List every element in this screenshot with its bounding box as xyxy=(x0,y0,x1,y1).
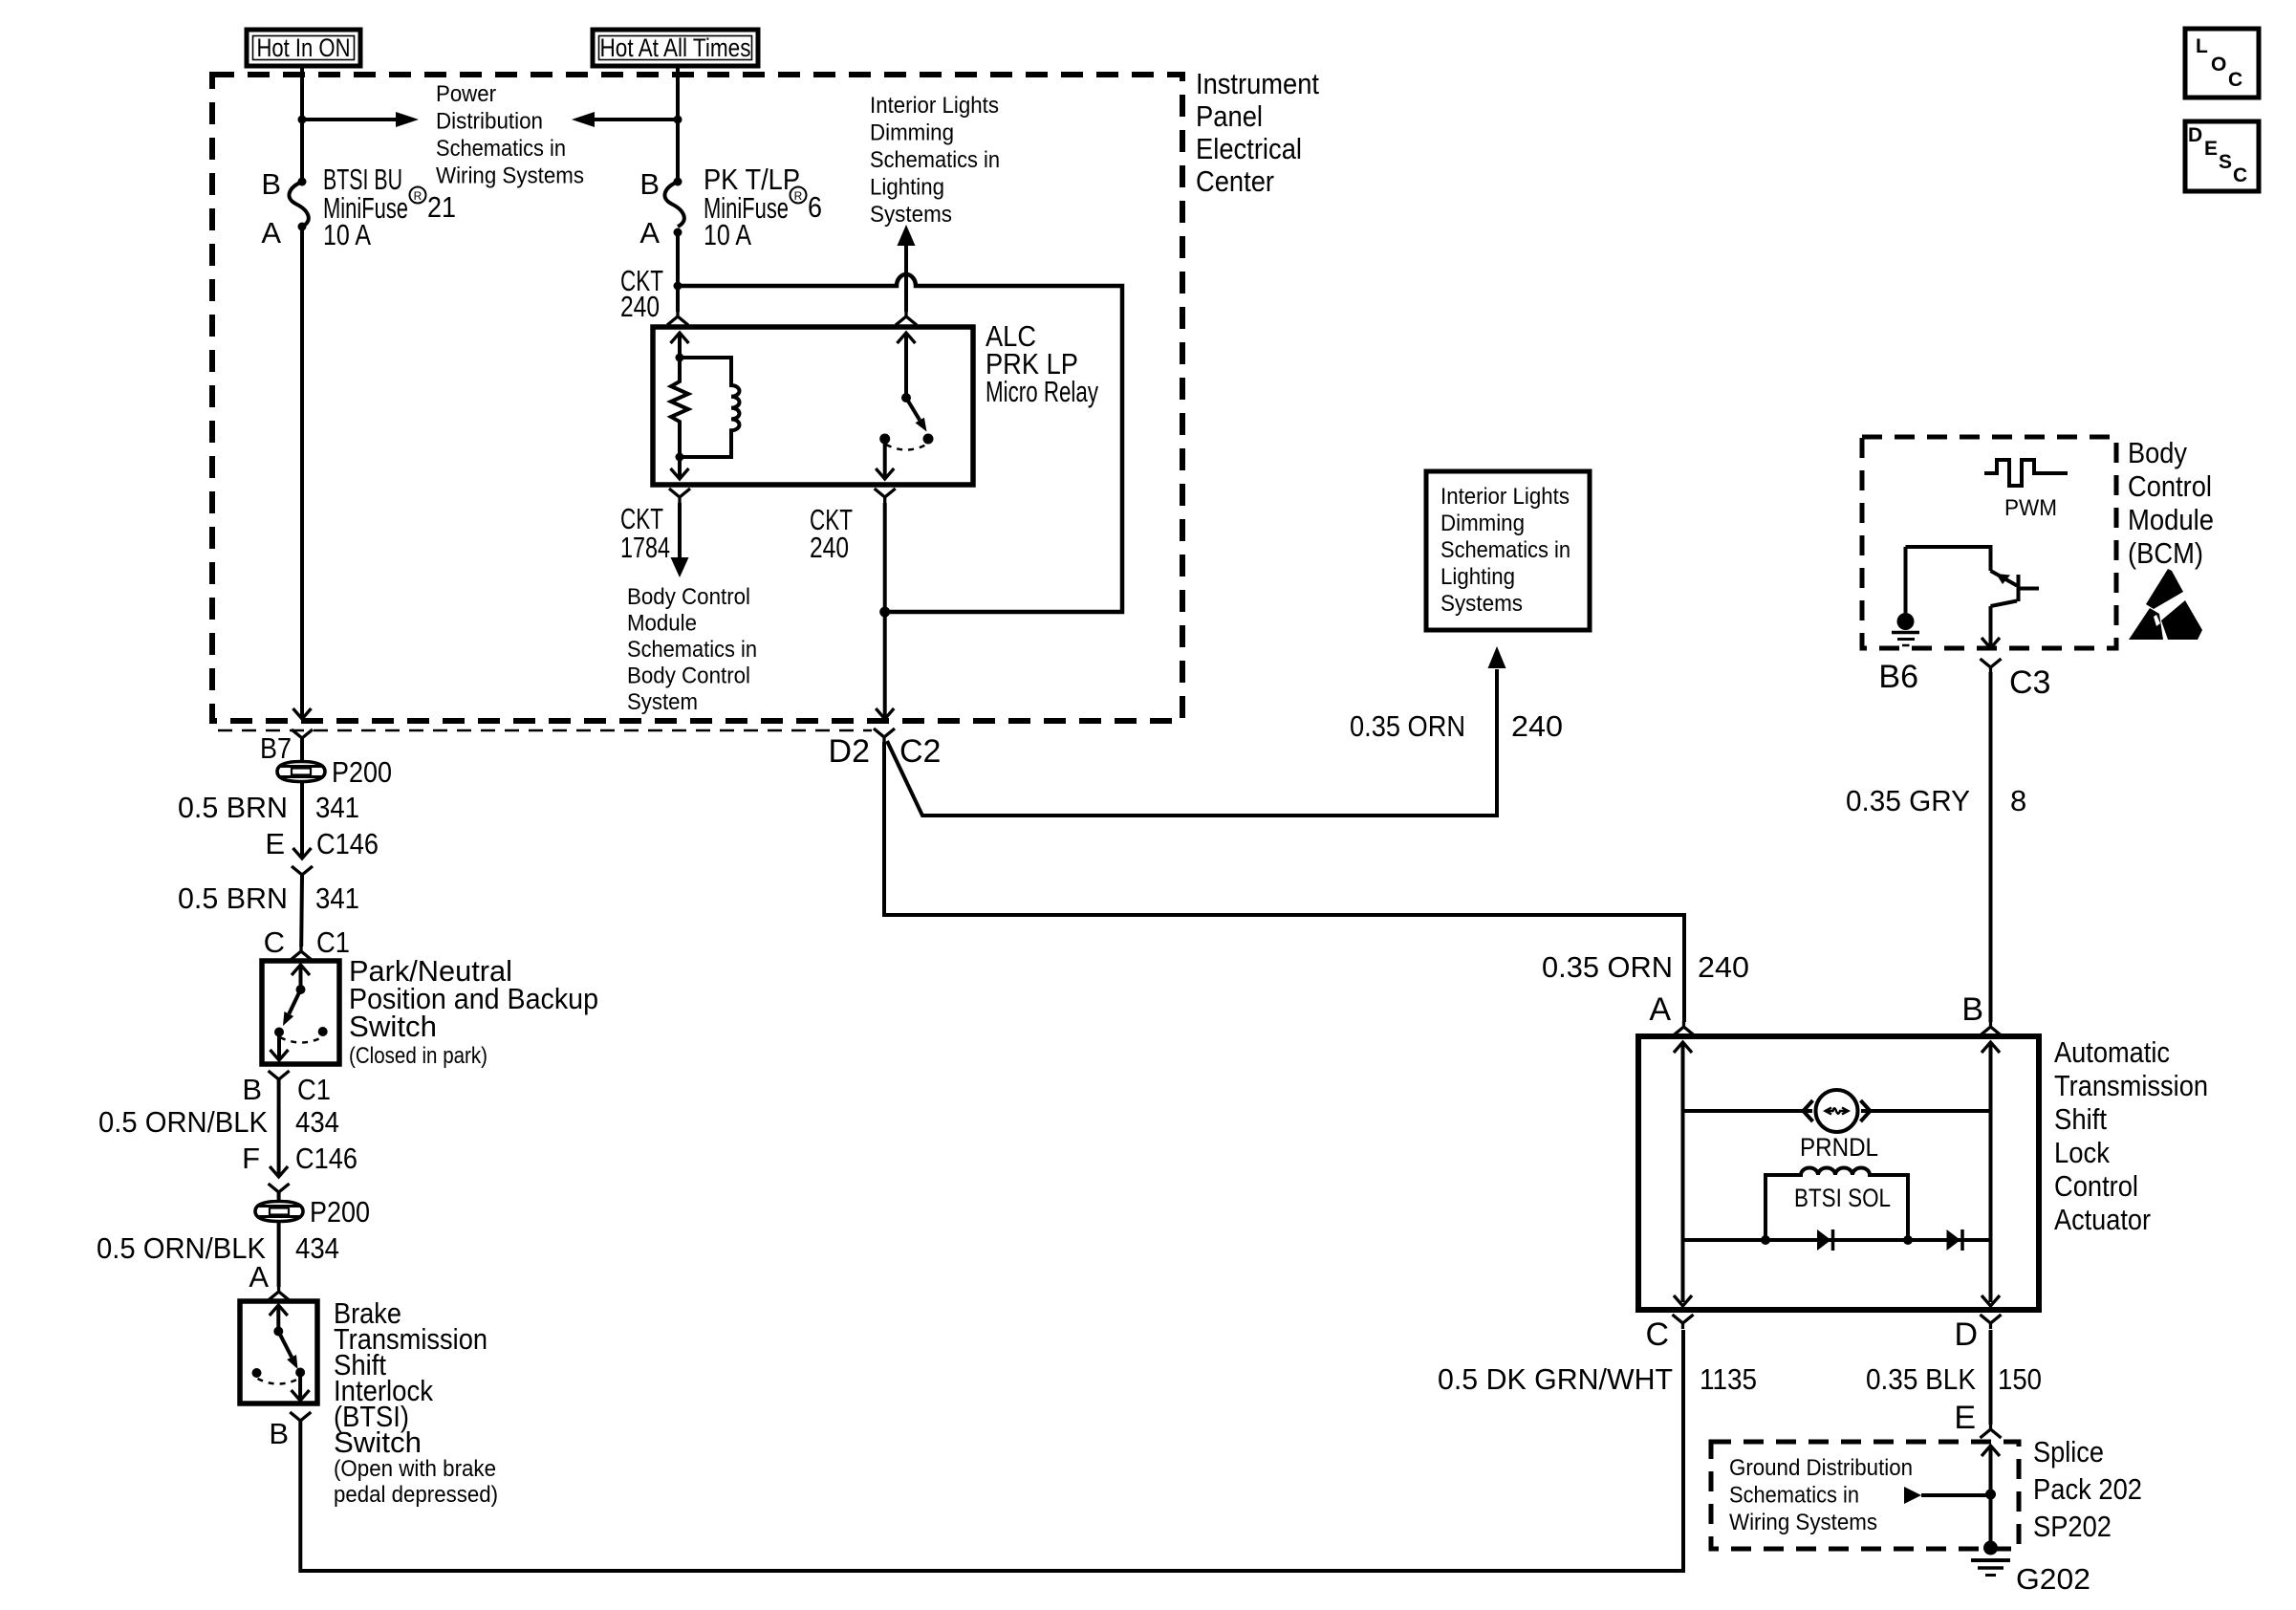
reference text: Interior Lights Dimming Schematics in Lighting Systems (top) xyxy=(870,93,1000,228)
diode line xyxy=(1683,1238,1991,1242)
svg-text:B: B xyxy=(1961,991,1983,1028)
svg-text:B6: B6 xyxy=(1878,659,1918,695)
wire: arrow branch to Power Distribution (left pointing) xyxy=(572,112,678,127)
svg-text:Interior Lights: Interior Lights xyxy=(1440,484,1570,510)
svg-text:Switch: Switch xyxy=(349,1010,437,1043)
svg-text:Body Control: Body Control xyxy=(627,664,750,689)
svg-text:0.5 ORN/BLK: 0.5 ORN/BLK xyxy=(97,1231,266,1265)
svg-text:R: R xyxy=(414,189,422,203)
svg-text:S: S xyxy=(2219,151,2232,173)
wire: relay switch feed up-arrow to lighting systems xyxy=(898,225,916,312)
relay label xyxy=(986,319,1098,408)
svg-text:Module: Module xyxy=(627,611,697,637)
svg-text:Ground Distribution: Ground Distribution xyxy=(1729,1455,1913,1481)
reference text: Ground Distribution Schematics in Wiring Systems xyxy=(1729,1455,1913,1535)
actuator pin D internal arrow xyxy=(1982,1295,2000,1306)
svg-text:C: C xyxy=(2233,164,2247,186)
svg-text:0.5 DK GRN/WHT: 0.5 DK GRN/WHT xyxy=(1438,1362,1673,1396)
connector C146 pin F xyxy=(242,1142,357,1198)
BTSI SOL solenoid xyxy=(1765,1168,1908,1241)
ground G202 xyxy=(1971,1541,2010,1576)
svg-text:0.5 BRN: 0.5 BRN xyxy=(178,881,288,915)
svg-text:Interior Lights: Interior Lights xyxy=(870,93,999,119)
pass-through connector P200 (lower) xyxy=(255,1202,303,1222)
svg-text:R: R xyxy=(794,189,803,203)
svg-text:PWM: PWM xyxy=(2004,495,2057,521)
svg-text:P200: P200 xyxy=(332,755,392,789)
svg-text:A: A xyxy=(639,216,660,250)
wire label 0.5 DK GRN/WHT | 1135 xyxy=(1438,1362,1757,1396)
svg-text:D2: D2 xyxy=(829,733,870,770)
reference text: Body Control Module Schematics in Body Control System xyxy=(627,584,757,715)
svg-text:Dimming: Dimming xyxy=(870,120,954,146)
thin dashed connector line C2/D2 xyxy=(218,729,872,732)
value label: BTSI BU MiniFuse(R) 21 10 A xyxy=(323,163,456,251)
wire label 0.5 ORN/BLK | 434 (lower) xyxy=(97,1231,339,1265)
connector chevron: relay coil output xyxy=(669,489,690,503)
relay coil output arrow xyxy=(671,457,689,479)
splice label xyxy=(2033,1435,2142,1543)
DESC reference box xyxy=(2185,121,2259,191)
connector chevron actuator pin B xyxy=(1981,1021,2002,1035)
wire to P200 lower xyxy=(277,1192,281,1201)
svg-text:0.35 ORN: 0.35 ORN xyxy=(1350,709,1465,743)
junction node SP202 xyxy=(1985,1490,1996,1500)
pass-through connector P200 (upper) xyxy=(277,762,325,782)
wire label 0.35 ORN | 240 (actuator pin A) xyxy=(1542,950,1749,984)
svg-text:Schematics in: Schematics in xyxy=(870,147,1000,173)
connector C1 pin C xyxy=(264,925,350,960)
wire label 0.35 ORN | 240 (dimming branch) xyxy=(1350,709,1563,743)
svg-text:434: 434 xyxy=(295,1231,339,1265)
svg-text:System: System xyxy=(627,689,698,715)
junction node CKT 240 xyxy=(674,282,682,291)
svg-text:Dimming: Dimming xyxy=(1440,511,1525,536)
reference box: Interior Lights Dimming Schematics in Lighting Systems xyxy=(1426,471,1590,630)
diode D1 xyxy=(1817,1229,1833,1251)
svg-text:Schematics in: Schematics in xyxy=(1440,537,1570,563)
BTSI contact (open) xyxy=(252,1368,262,1378)
relay box ALC PRK LP Micro Relay xyxy=(653,327,973,485)
wire: Hot In ON feed drop xyxy=(300,66,304,182)
wire label 0.35 GRY | 8 xyxy=(1846,784,2026,817)
relay switch output arrow xyxy=(876,444,894,479)
actuator pin A internal arrow xyxy=(1674,1042,1692,1302)
wire label 0.35 BLK | 150 xyxy=(1866,1362,2042,1396)
connector chevron above BTSI switch xyxy=(269,1286,290,1300)
wire: 0.5 BRN 341 (upper) xyxy=(300,781,304,859)
junction node (solenoid right) xyxy=(1903,1235,1913,1245)
svg-text:Schematics in: Schematics in xyxy=(627,637,757,663)
svg-text:0.5 BRN: 0.5 BRN xyxy=(178,791,288,824)
branch arrow to ground distribution xyxy=(1904,1487,1991,1504)
relay coil node top xyxy=(676,354,684,362)
svg-text:B: B xyxy=(269,1417,289,1450)
svg-text:A: A xyxy=(1649,991,1671,1028)
svg-text:C146: C146 xyxy=(295,1142,357,1175)
reference text: Power Distribution Schematics in Wiring Systems xyxy=(436,81,584,189)
svg-text:Switch: Switch xyxy=(334,1425,422,1459)
svg-text:(BCM): (BCM) xyxy=(2128,536,2203,570)
svg-text:Power: Power xyxy=(436,81,496,107)
relay coil input arrow xyxy=(671,333,689,358)
svg-text:434: 434 xyxy=(295,1105,339,1139)
svg-text:P200: P200 xyxy=(310,1195,370,1229)
svg-text:D: D xyxy=(2188,124,2202,146)
connector chevron actuator pin A xyxy=(1674,1021,1695,1035)
svg-text:8: 8 xyxy=(2010,784,2026,817)
svg-text:Control: Control xyxy=(2128,469,2212,503)
svg-text:Automatic: Automatic xyxy=(2054,1035,2170,1069)
svg-text:Systems: Systems xyxy=(1440,591,1523,617)
P/N switch output arrow xyxy=(271,1036,289,1060)
actuator box: Automatic Transmission Shift Lock Control Actuator xyxy=(1638,1036,2039,1310)
svg-text:C146: C146 xyxy=(316,827,379,860)
wire: CKT 1784 to BCM reference xyxy=(671,503,689,577)
svg-text:240: 240 xyxy=(1698,950,1749,984)
svg-text:B: B xyxy=(242,1073,262,1106)
svg-text:Electrical: Electrical xyxy=(1196,132,1302,165)
dashed box: Body Control Module (BCM) xyxy=(1862,437,2116,648)
junction node (solenoid left) xyxy=(1761,1235,1770,1245)
label box "Hot At All Times" xyxy=(593,30,758,66)
svg-text:6: 6 xyxy=(808,190,822,224)
BTSI switch arm xyxy=(278,1332,297,1370)
connector B7: chevron below dashed border xyxy=(292,729,313,761)
wire label 0.5 BRN | 341 xyxy=(178,791,359,824)
svg-text:Schematics in: Schematics in xyxy=(1729,1483,1859,1509)
P/N switch input arrow and pivot xyxy=(292,965,310,994)
actuator label xyxy=(2054,1035,2208,1236)
relay coil node bottom xyxy=(676,453,684,462)
connector chevron below BTSI xyxy=(290,1412,311,1426)
wire: CKT 240 fuse output xyxy=(676,232,680,312)
svg-text:A: A xyxy=(261,216,281,250)
relay switch contact (closed) xyxy=(923,434,934,445)
label: Instrument Panel Electrical Center xyxy=(1196,67,1319,198)
wire: 0.5 ORN/BLK 434 to BTSI xyxy=(277,1221,281,1287)
connector pin E xyxy=(1954,1400,2001,1438)
svg-text:B7: B7 xyxy=(260,731,292,765)
svg-text:E: E xyxy=(265,827,285,860)
svg-text:1784: 1784 xyxy=(620,531,670,564)
svg-text:341: 341 xyxy=(315,791,359,824)
relay switch contact (open, to output) xyxy=(879,434,890,445)
splice internal wire with up arrow xyxy=(1982,1446,2000,1542)
dashed box: Splice Pack 202 xyxy=(1711,1442,2019,1549)
svg-text:C2: C2 xyxy=(899,733,941,770)
svg-text:C: C xyxy=(1645,1316,1669,1353)
BCM internal wire to transistor xyxy=(1906,547,1991,571)
wire: arrow branch to Power Distribution xyxy=(302,112,419,127)
svg-text:10 A: 10 A xyxy=(704,218,751,251)
junction node on left feed xyxy=(298,116,307,124)
svg-text:0.35 BLK: 0.35 BLK xyxy=(1866,1362,1976,1396)
svg-text:Module: Module xyxy=(2128,503,2214,536)
PRNDL lamp xyxy=(1683,1090,1991,1132)
fuse F21 BTSI BU MiniFuse 10A xyxy=(289,178,308,231)
relay switch: input arrow and pivot xyxy=(898,333,916,402)
junction node on right feed xyxy=(674,116,682,124)
svg-text:Panel: Panel xyxy=(1196,99,1263,133)
svg-text:Shift: Shift xyxy=(2054,1102,2107,1136)
svg-text:BTSI SOL: BTSI SOL xyxy=(1794,1184,1891,1212)
svg-text:Schematics in: Schematics in xyxy=(436,136,566,162)
svg-text:Lighting: Lighting xyxy=(870,175,944,201)
svg-text:Wiring Systems: Wiring Systems xyxy=(436,163,584,189)
svg-text:Hot At All Times: Hot At All Times xyxy=(600,33,751,62)
connector D2 / C2 chevron xyxy=(874,729,895,743)
svg-text:A: A xyxy=(249,1260,269,1294)
svg-text:Pack 202: Pack 202 xyxy=(2033,1472,2142,1506)
svg-text:(Closed in park): (Closed in park) xyxy=(349,1043,487,1069)
BCM internal ground xyxy=(1892,547,1919,645)
dashed box: Instrument Panel Electrical Center xyxy=(212,75,1182,721)
svg-text:C: C xyxy=(2228,69,2242,91)
BTSI output arrow xyxy=(292,1377,310,1401)
svg-text:10 A: 10 A xyxy=(323,218,371,251)
actuator pin B internal arrow xyxy=(1982,1042,2000,1302)
wire: relay output down to D2 xyxy=(876,503,894,719)
svg-text:341: 341 xyxy=(315,881,359,915)
BCM output wire with arrow at box edge xyxy=(1982,606,2000,648)
svg-text:B: B xyxy=(261,167,281,201)
diode D2 xyxy=(1947,1229,1963,1251)
label box "Hot In ON" xyxy=(247,30,360,66)
BTSI input arrow and pivot xyxy=(270,1305,288,1337)
wire: 0.5 BRN 341 (lower) xyxy=(299,875,304,946)
resistor (relay suppression) xyxy=(671,358,688,457)
svg-text:(Open with brake: (Open with brake xyxy=(334,1456,496,1482)
svg-text:240: 240 xyxy=(810,531,849,564)
svg-text:Distribution: Distribution xyxy=(436,109,543,135)
connector chevron actuator pin C xyxy=(1673,1315,1694,1329)
svg-text:Wiring Systems: Wiring Systems xyxy=(1729,1510,1877,1535)
PWM signal symbol xyxy=(1984,460,2068,521)
svg-text:Hot In ON: Hot In ON xyxy=(257,33,351,62)
connector chevron: relay pin (coil +) xyxy=(667,311,688,325)
wire: feed loop from CKT240 to relay switch and D2 xyxy=(678,274,1122,612)
svg-text:0.5 ORN/BLK: 0.5 ORN/BLK xyxy=(98,1105,268,1139)
P/N switch arm xyxy=(283,990,301,1026)
svg-text:0.35 ORN: 0.35 ORN xyxy=(1542,950,1673,984)
svg-text:pedal depressed): pedal depressed) xyxy=(334,1482,498,1508)
wire label: CKT 240 xyxy=(620,264,663,323)
fuse F6 PK T/LP MiniFuse 10A xyxy=(664,178,683,237)
wire: 0.35 GRY 8 from BCM to actuator pin B xyxy=(1989,672,1993,1022)
svg-text:Micro Relay: Micro Relay xyxy=(986,375,1098,408)
ESD sensitive symbol xyxy=(2129,569,2202,640)
svg-text:Transmission: Transmission xyxy=(2054,1069,2208,1102)
svg-text:E: E xyxy=(2204,138,2218,160)
connector chevron actuator pin D xyxy=(1981,1315,2002,1329)
dashed travel arc of P/N switch xyxy=(280,1037,322,1043)
svg-text:C3: C3 xyxy=(2009,664,2050,701)
svg-text:Actuator: Actuator xyxy=(2054,1203,2151,1236)
svg-text:1135: 1135 xyxy=(1700,1362,1757,1396)
junction node on CKT240 output xyxy=(879,607,890,618)
inductor coil (relay winding) xyxy=(680,358,740,457)
LOC reference box xyxy=(2185,29,2259,98)
svg-text:E: E xyxy=(1954,1400,1976,1436)
svg-text:Control: Control xyxy=(2054,1169,2138,1203)
actuator pin C internal arrow xyxy=(1674,1295,1692,1306)
wire: BTSI B to actuator pin C (long run) xyxy=(300,1330,1683,1571)
svg-text:F: F xyxy=(242,1142,260,1175)
svg-text:21: 21 xyxy=(427,190,456,224)
P/N switch label xyxy=(349,954,598,1069)
relay switch arm xyxy=(906,398,927,432)
Park/Neutral Position and Backup Switch box xyxy=(262,961,339,1064)
svg-text:B: B xyxy=(639,167,660,201)
BTSI switch box xyxy=(240,1301,317,1403)
svg-text:Instrument: Instrument xyxy=(1196,67,1319,100)
svg-text:150: 150 xyxy=(1998,1362,2042,1396)
connector C146 pin E xyxy=(265,827,379,881)
wire label 0.5 BRN | 341 (lower) xyxy=(178,881,359,915)
svg-text:240: 240 xyxy=(620,290,660,323)
transistor (BCM driver) xyxy=(1991,571,2040,606)
BTSI switch label xyxy=(334,1296,498,1508)
svg-text:C: C xyxy=(264,925,285,959)
wire: Hot At All Times feed drop xyxy=(676,66,680,182)
svg-text:Center: Center xyxy=(1196,164,1274,198)
svg-text:SP202: SP202 xyxy=(2033,1510,2112,1543)
BCM label xyxy=(2128,436,2214,570)
svg-text:Lock: Lock xyxy=(2054,1136,2110,1169)
P/N contact (open) xyxy=(318,1027,328,1036)
wire: fuse 21 output down to B7 xyxy=(293,227,312,719)
dashed travel arc of BTSI switch xyxy=(258,1379,299,1384)
connector chevron: relay switch output CKT 240 xyxy=(875,489,896,503)
connector chevron: relay pin (switch in) xyxy=(896,311,917,325)
wire: ORN/BLK down to C146 F xyxy=(277,1111,281,1177)
connector chevron below P/N switch xyxy=(269,1071,290,1111)
pin labels B | C1 xyxy=(242,1073,331,1106)
svg-text:0.35 GRY: 0.35 GRY xyxy=(1846,784,1970,817)
wire: pin D to splice (0.35 BLK 150) xyxy=(1989,1330,1993,1425)
svg-text:L: L xyxy=(2196,35,2208,57)
BTSI contact (to output) xyxy=(295,1368,305,1378)
svg-text:Systems: Systems xyxy=(870,202,952,228)
dashed travel arc of relay switch xyxy=(886,445,926,450)
svg-text:C1: C1 xyxy=(316,925,350,959)
wire label: CKT 240 (relay output) xyxy=(810,503,853,564)
svg-text:G202: G202 xyxy=(2016,1562,2090,1596)
svg-text:Splice: Splice xyxy=(2033,1435,2104,1469)
svg-text:Body Control: Body Control xyxy=(627,584,750,610)
svg-text:Lighting: Lighting xyxy=(1440,564,1515,590)
svg-text:O: O xyxy=(2211,54,2226,76)
svg-text:240: 240 xyxy=(1511,709,1563,743)
svg-text:PRNDL: PRNDL xyxy=(1800,1133,1878,1162)
connector B6 / C3 chevron xyxy=(1981,659,2002,673)
P/N contact (closed) xyxy=(274,1028,284,1037)
wire label: CKT 1784 xyxy=(620,502,670,564)
svg-text:Body: Body xyxy=(2128,436,2187,469)
wire: branch from C2 to interior lights dimming xyxy=(887,646,1506,816)
wire: D2 down and across to actuator pin A xyxy=(884,742,1684,1022)
value label: PK T/LP MiniFuse(R) 6 10 A xyxy=(704,163,822,251)
svg-text:C1: C1 xyxy=(297,1073,331,1106)
wire label 0.5 ORN/BLK | 434 xyxy=(98,1105,339,1139)
svg-text:D: D xyxy=(1954,1316,1978,1353)
